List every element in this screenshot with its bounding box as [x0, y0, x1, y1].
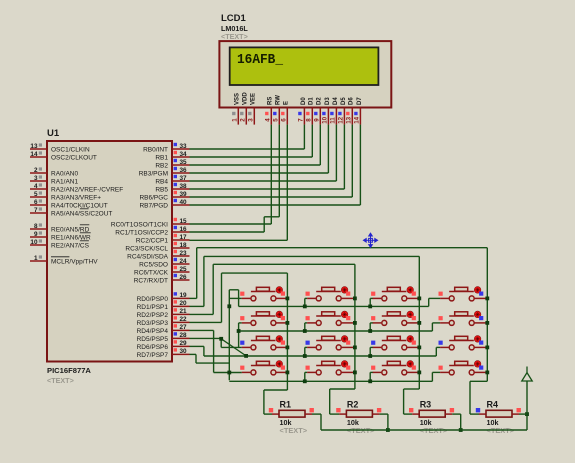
U1 pin 2	[30, 172, 47, 174]
svg-text:OSC1/CLKIN: OSC1/CLKIN	[51, 146, 90, 153]
svg-text:D2: D2	[317, 97, 323, 105]
svg-text:1: 1	[231, 118, 238, 122]
svg-text:RB2: RB2	[155, 162, 168, 169]
wire RD6 to keypad row 3 rail	[190, 345, 204, 347]
wire D0 to RB0	[303, 125, 305, 149]
svg-text:<TEXT>: <TEXT>	[221, 32, 248, 41]
svg-text:4: 4	[264, 118, 271, 122]
U1 pin 6	[30, 204, 47, 206]
push button row 2 col 1	[240, 311, 287, 325]
svg-text:33: 33	[180, 143, 188, 150]
svg-text:34: 34	[180, 151, 188, 158]
svg-text:RS: RS	[268, 97, 274, 105]
junction	[353, 297, 357, 301]
svg-text:RD2/PSP2: RD2/PSP2	[137, 312, 169, 319]
wire r1c1 terminal	[229, 297, 242, 299]
column 3 vertical wire	[418, 256, 420, 389]
U1 pin 40	[172, 204, 190, 206]
svg-text:20: 20	[180, 300, 188, 307]
svg-text:D0: D0	[301, 97, 307, 105]
svg-text:25: 25	[180, 266, 188, 273]
keypad row 1 rail	[239, 305, 429, 307]
U1 pin 22	[172, 321, 190, 323]
svg-text:<TEXT>: <TEXT>	[47, 376, 74, 385]
svg-text:R4: R4	[487, 400, 499, 410]
junction	[227, 304, 231, 308]
wire RD7	[190, 353, 197, 355]
svg-text:R3: R3	[420, 400, 432, 410]
svg-text:13: 13	[345, 116, 352, 123]
svg-text:10: 10	[321, 116, 328, 123]
svg-text:12: 12	[337, 116, 344, 123]
overline WR	[80, 232, 91, 234]
U1 pin 36	[172, 172, 190, 174]
U1 pin 21	[172, 313, 190, 315]
push button row 4 col 1	[240, 361, 287, 375]
svg-text:13: 13	[30, 143, 38, 150]
svg-text:RB7/PGD: RB7/PGD	[139, 202, 168, 209]
junction	[459, 428, 463, 432]
svg-text:RE0/AN5/RD: RE0/AN5/RD	[51, 226, 90, 233]
microcontroller U1 PIC16F877A body	[47, 141, 172, 362]
svg-text:D5: D5	[341, 97, 347, 105]
push button row 4 col 4	[439, 361, 488, 375]
svg-text:<TEXT>: <TEXT>	[280, 426, 308, 435]
junction	[286, 321, 290, 325]
svg-text:D1: D1	[309, 97, 315, 105]
U1 pin 15	[172, 223, 190, 225]
svg-text:40: 40	[180, 199, 188, 206]
U1 pin 20	[172, 305, 190, 307]
svg-text:14: 14	[30, 151, 38, 158]
wire RW to RC1	[278, 125, 280, 217]
U1 pin 7	[30, 212, 47, 214]
junction	[368, 354, 372, 358]
svg-text:RA3/AN3/VREF+: RA3/AN3/VREF+	[51, 194, 101, 201]
svg-text:RA1/AN1: RA1/AN1	[51, 178, 78, 185]
svg-text:VEE: VEE	[251, 93, 257, 105]
U1 pin 8	[30, 228, 47, 230]
svg-text:39: 39	[180, 191, 188, 198]
wire RD1 to column 3	[190, 305, 204, 307]
U1 pin 33	[172, 148, 190, 150]
svg-text:RE2/AN7/CS: RE2/AN7/CS	[51, 242, 90, 249]
wire D5 to RB5	[343, 125, 345, 189]
U1 pin 23	[172, 255, 190, 257]
column 1 vertical wire	[286, 273, 288, 390]
svg-text:RB4: RB4	[155, 178, 168, 185]
svg-text:RE1/AN6/WR: RE1/AN6/WR	[51, 234, 91, 241]
U1 pin 34	[172, 156, 190, 158]
svg-text:28: 28	[180, 332, 188, 339]
resistor R2 10k	[330, 400, 382, 436]
U1 pin 16	[172, 231, 190, 233]
junction	[485, 321, 489, 325]
svg-text:23: 23	[180, 250, 188, 257]
ground symbol	[526, 381, 528, 414]
svg-text:16: 16	[180, 226, 188, 233]
svg-text:2: 2	[34, 167, 38, 174]
svg-text:VSS: VSS	[235, 93, 241, 105]
junction	[368, 379, 372, 383]
svg-text:24: 24	[180, 258, 188, 265]
junction	[353, 346, 357, 350]
U1 pin 14	[30, 156, 47, 158]
U1 pin 26	[172, 279, 190, 281]
push button row 1 col 3	[371, 287, 419, 301]
svg-text:22: 22	[180, 316, 188, 323]
U1 pin 13	[30, 148, 47, 150]
column 2 vertical wire	[354, 264, 356, 389]
wire D3 to RB3	[327, 125, 329, 173]
wire D2 to RB2	[319, 125, 321, 165]
U1 pin 27	[172, 329, 190, 331]
svg-text:MCLR/Vpp/THV: MCLR/Vpp/THV	[51, 258, 98, 265]
junction	[417, 346, 421, 350]
svg-text:RA2/AN2/VREF-/CVREF: RA2/AN2/VREF-/CVREF	[51, 186, 123, 193]
push button row 1 col 4	[439, 287, 488, 301]
push button row 3 col 4	[439, 336, 488, 350]
wire D7 to RB7	[359, 125, 361, 205]
junction	[386, 428, 390, 432]
svg-text:RW: RW	[276, 95, 282, 105]
U1 pin 35	[172, 164, 190, 166]
wire RD4 to keypad row 4	[190, 329, 214, 331]
svg-text:RB5: RB5	[155, 186, 168, 193]
svg-text:E: E	[284, 101, 290, 105]
junction	[485, 346, 489, 350]
keypad row 4 rail	[229, 380, 432, 382]
keypad row 2 rail	[239, 330, 433, 332]
svg-text:RC4/SDI/SDA: RC4/SDI/SDA	[127, 253, 168, 260]
wire D1 to RB1	[311, 125, 313, 157]
svg-text:2: 2	[239, 118, 246, 122]
svg-text:6: 6	[280, 118, 287, 122]
svg-text:RB1: RB1	[155, 154, 168, 161]
U1 pin 1	[30, 260, 47, 262]
svg-text:8: 8	[305, 118, 312, 122]
push button row 1 col 2	[306, 287, 355, 301]
wire drop r3 x304.8	[305, 346, 307, 348]
svg-text:7: 7	[297, 118, 304, 122]
overline CS	[80, 240, 89, 242]
svg-text:VDD: VDD	[243, 92, 249, 105]
U1 pin 10	[30, 244, 47, 246]
svg-text:14: 14	[353, 116, 360, 123]
U1 pin 19	[172, 297, 190, 299]
svg-text:10: 10	[30, 239, 38, 246]
overline SS	[80, 208, 89, 210]
svg-text:RD7/PSP7: RD7/PSP7	[137, 352, 169, 359]
wire drop r2 x304.8	[305, 322, 307, 324]
svg-text:27: 27	[180, 324, 188, 331]
svg-text:RD0/PSP0: RD0/PSP0	[137, 296, 169, 303]
left bridge wire	[228, 290, 230, 380]
wire drop r1 x370.2	[370, 297, 373, 299]
svg-text:30: 30	[180, 348, 188, 355]
U1 pin 39	[172, 196, 190, 198]
svg-text:35: 35	[180, 159, 188, 166]
junction	[353, 371, 357, 375]
junction	[303, 379, 307, 383]
wire drop r1 x304.8	[305, 297, 307, 299]
push button row 4 col 3	[371, 361, 419, 375]
svg-text:RC7/RX/DT: RC7/RX/DT	[134, 277, 168, 284]
svg-text:9: 9	[313, 118, 320, 122]
R1 drop	[312, 413, 321, 415]
origin marker	[363, 233, 377, 247]
svg-text:8: 8	[34, 223, 38, 230]
svg-text:37: 37	[180, 175, 188, 182]
junction	[417, 297, 421, 301]
svg-text:RD1/PSP1: RD1/PSP1	[137, 304, 169, 311]
svg-text:D3: D3	[325, 97, 331, 105]
U1 pin 37	[172, 180, 190, 182]
svg-text:R1: R1	[280, 400, 292, 410]
junction	[353, 321, 357, 325]
junction	[286, 346, 290, 350]
wire RD3 to column 1	[190, 321, 222, 323]
svg-text:5: 5	[34, 191, 38, 198]
resistor R4 10k	[470, 400, 521, 436]
svg-text:D7: D7	[357, 97, 363, 105]
junction	[244, 354, 248, 358]
junction	[485, 297, 489, 301]
push button row 3 col 1	[240, 336, 287, 350]
junction	[237, 329, 241, 333]
svg-text:RA4/T0CKI/C1OUT: RA4/T0CKI/C1OUT	[51, 202, 108, 209]
svg-text:RC3/SCK/SCL: RC3/SCK/SCL	[125, 245, 168, 252]
push button row 2 col 3	[371, 311, 419, 325]
svg-text:3: 3	[34, 175, 38, 182]
svg-text:11: 11	[329, 117, 336, 124]
U1 pin 29	[172, 345, 190, 347]
wire r2c1 drop	[239, 322, 242, 324]
resistor R3 10k	[404, 400, 455, 436]
junction	[286, 371, 290, 375]
ground rail	[321, 429, 527, 431]
U1 pin 18	[172, 247, 190, 249]
junction	[227, 371, 231, 375]
LCD LM016L body	[219, 41, 391, 107]
overline MCLR	[51, 256, 69, 258]
svg-text:RD3/PSP3: RD3/PSP3	[137, 320, 169, 327]
svg-text:38: 38	[180, 183, 188, 190]
svg-text:3: 3	[247, 118, 254, 122]
push button row 3 col 3	[371, 336, 419, 350]
wire RD5 to keypad row 3	[190, 337, 222, 339]
svg-text:6: 6	[34, 199, 38, 206]
wire D4 to RB4	[335, 125, 337, 181]
svg-text:RD6/PSP6: RD6/PSP6	[137, 344, 169, 351]
wire drop r2 x370.2	[370, 322, 373, 324]
svg-text:RD4/PSP4: RD4/PSP4	[137, 328, 169, 335]
wire RD0 to column 4	[190, 297, 197, 299]
svg-text:D6: D6	[349, 97, 355, 105]
svg-text:18: 18	[180, 242, 188, 249]
svg-text:RD5/PSP5: RD5/PSP5	[137, 336, 169, 343]
junction	[417, 371, 421, 375]
U1 pin 24	[172, 263, 190, 265]
wire drop r4 x370.2	[370, 371, 373, 373]
svg-text:19: 19	[180, 292, 188, 299]
svg-text:RA5/AN4/SS/C2OUT: RA5/AN4/SS/C2OUT	[51, 210, 112, 217]
svg-text:R2: R2	[347, 400, 359, 410]
svg-text:RB3/PGM: RB3/PGM	[139, 170, 168, 177]
svg-text:RB0/INT: RB0/INT	[143, 146, 168, 153]
svg-text:U1: U1	[47, 128, 60, 139]
diagonal wire RD5 to row 3 rail	[221, 339, 246, 356]
wire drop r3 x370.2	[370, 346, 373, 348]
junction	[219, 337, 223, 341]
R3 drop	[452, 413, 461, 415]
svg-text:RC1/T1OSI/CCP2: RC1/T1OSI/CCP2	[115, 229, 168, 236]
svg-text:16AFB_: 16AFB_	[237, 52, 284, 68]
wire D6 to RB6	[351, 125, 353, 197]
R4 to ground	[519, 413, 527, 415]
U1 pin 3	[30, 180, 47, 182]
svg-text:RC2/CCP1: RC2/CCP1	[136, 237, 169, 244]
U1 pin 28	[172, 337, 190, 339]
svg-text:21: 21	[180, 308, 188, 315]
push button row 2 col 2	[306, 311, 355, 325]
U1 pin 4	[30, 188, 47, 190]
U1 pin 9	[30, 236, 47, 238]
junction	[368, 305, 372, 309]
U1 pin 17	[172, 239, 190, 241]
svg-text:RC0/T1OSO/T1CKI: RC0/T1OSO/T1CKI	[111, 221, 168, 228]
U1 pin 25	[172, 271, 190, 273]
svg-text:RB6/PGC: RB6/PGC	[139, 194, 168, 201]
U1 pin 5	[30, 196, 47, 198]
push button row 1 col 1	[240, 287, 287, 301]
junction	[417, 321, 421, 325]
svg-text:26: 26	[180, 274, 188, 281]
wire E to RC2	[286, 125, 288, 241]
svg-text:OSC2/CLKOUT: OSC2/CLKOUT	[51, 154, 97, 161]
keypad row 3 rail col4 riser	[435, 347, 437, 356]
junction	[303, 305, 307, 309]
svg-text:17: 17	[180, 234, 188, 241]
svg-text:RC5/SDO: RC5/SDO	[139, 261, 168, 268]
push button row 4 col 2	[306, 361, 355, 375]
push button row 2 col 4	[439, 311, 488, 325]
junction	[286, 297, 290, 301]
svg-text:RC6/TX/CK: RC6/TX/CK	[134, 269, 169, 276]
svg-text:LCD1: LCD1	[221, 13, 247, 24]
overline RD	[80, 224, 89, 226]
junction	[303, 329, 307, 333]
wire RD2 to column 2	[190, 313, 214, 315]
wire drop r4 x304.8	[305, 371, 307, 373]
junction	[525, 412, 529, 416]
svg-text:9: 9	[34, 231, 38, 238]
U1 pin 30	[172, 353, 190, 355]
junction	[303, 354, 307, 358]
svg-text:RA0/AN0: RA0/AN0	[51, 170, 78, 177]
column 4 vertical wire	[486, 248, 488, 382]
svg-text:29: 29	[180, 340, 188, 347]
U1 pin 38	[172, 188, 190, 190]
svg-text:PIC16F877A: PIC16F877A	[47, 366, 91, 375]
junction	[485, 371, 489, 375]
svg-text:15: 15	[180, 218, 188, 225]
LCD screen	[230, 47, 379, 85]
svg-text:4: 4	[34, 183, 38, 190]
svg-text:5: 5	[272, 118, 279, 122]
resistor R1 10k	[264, 400, 314, 436]
svg-text:1: 1	[34, 255, 38, 262]
wire RS to RC0	[270, 125, 272, 224]
svg-text:36: 36	[180, 167, 188, 174]
svg-text:7: 7	[34, 207, 38, 214]
junction	[368, 329, 372, 333]
push button row 3 col 2	[306, 336, 355, 350]
R2 drop	[379, 413, 388, 415]
svg-text:D4: D4	[333, 97, 339, 105]
